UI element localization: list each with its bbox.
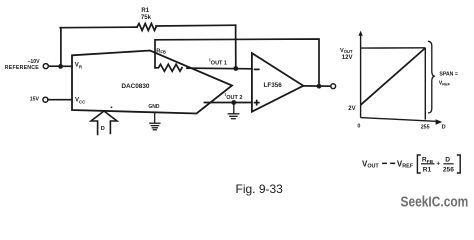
speck xyxy=(111,106,113,108)
wire IOUT2 to op-amp plus input xyxy=(204,102,252,104)
svg-text:OUT 1: OUT 1 xyxy=(211,61,227,67)
wire IOUT1 to op-amp minus input xyxy=(187,67,252,70)
node IOUT1 junction xyxy=(233,66,238,71)
graph y-axis arrowhead xyxy=(358,31,362,36)
svg-text:D: D xyxy=(445,157,450,164)
svg-text:DAC0830: DAC0830 xyxy=(121,83,150,90)
graph y-axis xyxy=(360,34,362,118)
svg-text:255: 255 xyxy=(421,124,430,130)
svg-text:0: 0 xyxy=(357,124,360,130)
span brace xyxy=(428,41,435,113)
svg-text:LF356: LF356 xyxy=(264,82,283,89)
wire: VR node up to R1 xyxy=(60,28,62,67)
svg-text:D: D xyxy=(101,126,105,132)
wire VR input xyxy=(48,65,72,67)
op-amp minus sign xyxy=(255,68,259,70)
svg-text:+: + xyxy=(436,161,440,168)
graph x-axis arrowhead xyxy=(436,119,443,125)
ground: IOUT2 xyxy=(228,103,239,119)
terminal -10V REFERENCE xyxy=(43,64,48,69)
svg-text:OUT 2: OUT 2 xyxy=(226,95,242,101)
graph transfer diagonal xyxy=(361,48,426,105)
node output junction xyxy=(317,84,322,89)
svg-text:SeekIC.com: SeekIC.com xyxy=(401,194,469,211)
wire: top left segment to R1 xyxy=(60,26,137,29)
svg-text:R1: R1 xyxy=(423,166,432,173)
svg-text:VREF: VREF xyxy=(439,80,451,86)
svg-text:2V: 2V xyxy=(348,106,355,112)
wire VCC input xyxy=(48,99,72,101)
op-amp U1 LF356 xyxy=(252,53,303,112)
wire output xyxy=(303,85,330,87)
wire: feedback top from output up-left xyxy=(155,39,319,86)
graph: VOUT vs D xyxy=(361,34,436,121)
svg-text:Fig. 9-33: Fig. 9-33 xyxy=(236,182,284,196)
svg-text:R1: R1 xyxy=(141,8,149,14)
svg-text:15V: 15V xyxy=(30,96,40,102)
wire: R1 to right corner xyxy=(156,24,236,27)
svg-text:VR: VR xyxy=(75,63,83,70)
graph 255 vertical line xyxy=(424,48,426,120)
svg-text:SPAN =: SPAN = xyxy=(439,71,458,77)
wire: down from R1 corner to summing node xyxy=(235,25,237,68)
svg-text:REFERENCE: REFERENCE xyxy=(5,65,40,71)
digital input D arrow xyxy=(91,111,117,135)
terminal 15V xyxy=(43,97,48,102)
resistor R1 xyxy=(137,24,156,31)
svg-text:VOUT: VOUT xyxy=(340,48,353,54)
ground: DAC GND pin xyxy=(150,112,160,129)
node IOUT2 junction xyxy=(231,100,236,105)
DAC U2 DAC0830 body xyxy=(72,51,232,114)
output terminal xyxy=(331,84,336,89)
node VR junction xyxy=(58,64,63,69)
graph 12V level line xyxy=(361,47,426,49)
svg-text:D: D xyxy=(442,124,446,130)
formula VOUT = -VREF [RFB/R1 + D/256] xyxy=(362,155,460,173)
svg-text:GND: GND xyxy=(148,104,160,110)
op-amp plus sign xyxy=(255,102,259,104)
svg-text:75k: 75k xyxy=(141,15,152,21)
svg-text:256: 256 xyxy=(443,166,454,173)
svg-text:12V: 12V xyxy=(342,55,353,61)
svg-text:RFB: RFB xyxy=(156,48,166,54)
resistor RFB xyxy=(155,64,182,71)
graph x-axis xyxy=(361,118,436,122)
